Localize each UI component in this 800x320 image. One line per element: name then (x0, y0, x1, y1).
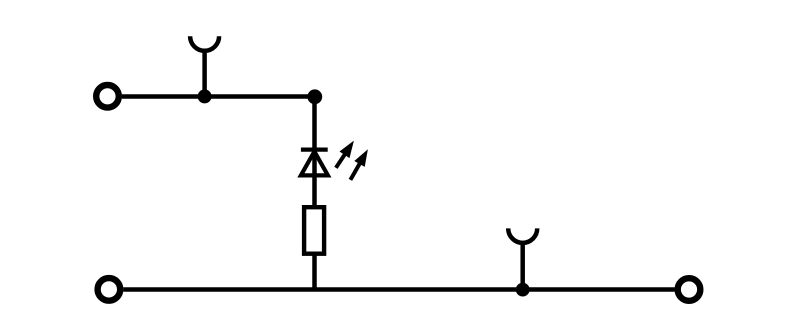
junction (top rail / socket stem) (198, 89, 212, 103)
wire (node A down through LED to resistor) (312, 97, 317, 292)
test socket (bottom tap, arc symbol) (508, 228, 537, 243)
wire (bottom socket stem) (520, 243, 525, 290)
cathode bar (301, 148, 328, 152)
junction (bottom rail / socket stem) (516, 283, 530, 297)
light emission arrow 1 (336, 149, 348, 168)
wire (top rail from terminal X1 to node A) (122, 94, 315, 99)
LED D1 (301, 141, 368, 180)
wire (bottom rail from terminal X2 to terminal X3) (123, 287, 675, 292)
terminal X2 (bottom-left open circle) (98, 278, 121, 301)
wire (top socket stem) (202, 50, 207, 96)
terminal X1 (top-left open circle) (96, 85, 119, 108)
anode triangle (301, 152, 328, 176)
light emission arrow 2 (350, 158, 362, 180)
terminal X3 (bottom-right open circle) (678, 278, 701, 301)
resistor R1 (304, 207, 324, 254)
node A junction (top rail / LED branch) (307, 89, 322, 104)
test socket (top tap, arc symbol) (190, 36, 219, 51)
